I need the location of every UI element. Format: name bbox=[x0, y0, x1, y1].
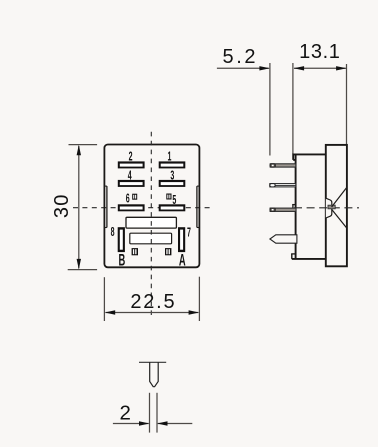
slot 2 (row A left) bbox=[118, 161, 145, 168]
row C left slot bbox=[118, 204, 145, 211]
bottom small square left bbox=[132, 248, 138, 255]
bottom small square right bbox=[165, 248, 171, 255]
side body notch above pin 3 bbox=[292, 204, 296, 208]
pin number 8 bbox=[111, 226, 115, 240]
svg-text:2: 2 bbox=[129, 151, 133, 165]
dimension 22.5 line with arrows bbox=[105, 310, 199, 314]
slot 3 (row B right) bbox=[159, 180, 186, 187]
wide rectangle lower (inner) bbox=[130, 233, 172, 244]
slot 1 (row A right) bbox=[159, 161, 186, 168]
pin detail top bar bbox=[139, 361, 166, 363]
side view body outline bbox=[292, 154, 326, 259]
dimension text 5.2 bbox=[222, 46, 258, 68]
dimension 5.2 line with arrow bbox=[217, 66, 270, 70]
dimension text 13.1 bbox=[299, 41, 340, 63]
svg-text:8: 8 bbox=[111, 226, 115, 240]
label B bbox=[119, 251, 126, 269]
pin detail blade outline bbox=[150, 362, 159, 386]
svg-text:5.2: 5.2 bbox=[222, 46, 258, 68]
dimension text 22.5 bbox=[130, 291, 176, 313]
side pin 1 (gray) bbox=[270, 164, 296, 168]
dimension 30 extension line top bbox=[69, 144, 98, 146]
front view body outline bbox=[104, 145, 199, 268]
slot 4 (row B left) bbox=[118, 180, 145, 187]
dimension 30 line with arrows bbox=[77, 145, 81, 270]
pin number 5 bbox=[172, 194, 176, 208]
vertical slot 8 bbox=[118, 227, 125, 252]
small square next to 6 bbox=[132, 194, 137, 200]
label A bbox=[179, 251, 186, 269]
side view mounting plate bbox=[326, 145, 347, 266]
svg-text:6: 6 bbox=[126, 193, 130, 207]
small square next to 5 bbox=[166, 194, 171, 200]
pin number 1 bbox=[168, 151, 172, 165]
side pin 3 (gray, on centerline) bbox=[270, 208, 296, 212]
pin number 6 bbox=[126, 193, 130, 207]
wedge diagonal upper bbox=[332, 187, 347, 207]
dimension 2 extension line right bbox=[156, 393, 158, 433]
side view horizontal centerline bbox=[294, 207, 359, 209]
front view vertical centerline bbox=[150, 132, 152, 316]
svg-text:A: A bbox=[179, 251, 186, 269]
right ear tab bbox=[197, 186, 200, 227]
dimension 2 extension line left bbox=[149, 393, 151, 433]
dimension 13.1 extension line right bbox=[346, 64, 348, 145]
svg-text:3: 3 bbox=[170, 169, 174, 183]
front view horizontal centerline bbox=[73, 207, 213, 209]
pin number 2 bbox=[129, 151, 133, 165]
dimension text 30 (rotated) bbox=[51, 193, 73, 218]
side pin 4 (arrow blade) bbox=[270, 235, 297, 243]
dimension 5.2 extension line left bbox=[269, 63, 271, 156]
dimension 5.2/13.1 shared extension line bbox=[292, 63, 294, 154]
row C right slot bbox=[159, 204, 186, 211]
svg-text:4: 4 bbox=[128, 169, 132, 183]
side body bottom-left notch bbox=[291, 254, 296, 259]
dimension 30 extension line bottom bbox=[68, 269, 97, 271]
dimension 2 line right segment with arrow bbox=[157, 421, 192, 425]
svg-text:5: 5 bbox=[172, 194, 176, 208]
dimension 22.5 extension line right bbox=[198, 277, 200, 321]
dimension 22.5 extension line left bbox=[103, 277, 105, 321]
side pin 2 (white) bbox=[270, 184, 296, 187]
pin number 3 bbox=[170, 169, 174, 183]
dimension text 2 bbox=[119, 402, 130, 425]
svg-text:22.5: 22.5 bbox=[130, 291, 176, 313]
clip tip small gray rect bbox=[328, 205, 335, 209]
svg-text:B: B bbox=[119, 251, 126, 269]
clip bump on plate edge bbox=[326, 198, 332, 218]
vertical slot 7 bbox=[178, 227, 185, 252]
pin number 4 bbox=[128, 169, 132, 183]
svg-text:2: 2 bbox=[119, 402, 130, 425]
dimension 2 line left segment with arrow bbox=[113, 421, 150, 425]
svg-text:1: 1 bbox=[168, 151, 172, 165]
svg-text:30: 30 bbox=[51, 193, 73, 218]
left ear tab bbox=[104, 186, 107, 227]
dimension 13.1 line with arrows bbox=[294, 66, 347, 70]
wedge diagonal lower bbox=[332, 209, 347, 228]
svg-text:7: 7 bbox=[187, 226, 191, 240]
wide rectangle upper bbox=[126, 217, 176, 228]
svg-text:13.1: 13.1 bbox=[299, 41, 340, 63]
pin number 7 bbox=[187, 226, 191, 240]
